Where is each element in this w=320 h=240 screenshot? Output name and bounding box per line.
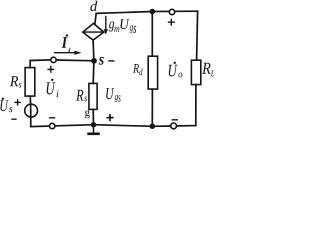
- arrow: gm*Ugs current direction downward: [104, 17, 108, 35]
- wire: middle resistor bottom to node g: [92, 109, 94, 124]
- voltage source Us: circle: [25, 104, 38, 117]
- wire: lead through source circle: [30, 104, 32, 117]
- label: plus at output + terminal: [168, 19, 175, 26]
- label: node s: [99, 57, 104, 65]
- label: current Ii (dotted I with subscript i): [61, 34, 70, 52]
- label: output voltage Uo (dotted U, subscript o): [169, 62, 183, 78]
- node: Rd bottom junction dot: [150, 123, 156, 129]
- resistor Rd: [148, 56, 157, 89]
- node g: junction dot: [91, 122, 96, 127]
- resistor Rs (left series): [25, 68, 35, 97]
- label: plus at input + terminal: [47, 66, 54, 73]
- dependent current source G1: diamond gm*Ugs: [83, 23, 104, 40]
- node s: junction dot: [91, 58, 97, 64]
- label: node d: [90, 1, 97, 11]
- label: input voltage Ui (dotted U, subscript i): [47, 79, 59, 97]
- wire: input terminal left to corner then down to Rs top: [30, 60, 51, 68]
- terminal: input - (open circle): [50, 123, 55, 128]
- wire: right drop from top-right corner down to RL top: [197, 11, 198, 60]
- label: minus at source Us bottom: [11, 118, 16, 120]
- label: minus above input - terminal: [49, 117, 55, 119]
- wire: input run from + terminal to node s: [56, 59, 94, 62]
- label: source voltage Us (dotted U, subscript s): [0, 98, 12, 113]
- resistor Rs (middle, between s and g): [89, 83, 97, 109]
- label: plus of Ugs at node g: [106, 114, 113, 121]
- arrow: Ii direction: [54, 51, 82, 55]
- resistor RL: [191, 60, 200, 84]
- label: Rd: [133, 64, 143, 75]
- terminal: input + (open circle): [51, 57, 56, 62]
- wire: Rd branch vertical from top junction to Rd box: [151, 12, 153, 57]
- wire: bottom-right run from node g through Rd junction to corner: [94, 125, 196, 127]
- label: minus above output - terminal: [172, 119, 178, 121]
- terminal: output + (open circle): [169, 9, 174, 14]
- wire: node s down to middle resistor top: [92, 61, 95, 84]
- label: RL: [202, 63, 214, 76]
- label: minus of Ugs at node s: [108, 60, 114, 62]
- ground symbol at node g: [89, 125, 99, 134]
- label: Rs (middle resistor): [76, 90, 87, 101]
- wire: node d stub from top rail to diamond top: [95, 13, 96, 23]
- label: Ugs across middle resistor: [106, 88, 120, 102]
- terminal: output - (open circle): [171, 123, 177, 129]
- wire: source bottom corner and bottom-left run to node g: [31, 117, 94, 127]
- label: Rs (left series resistor): [10, 76, 21, 87]
- wire: Rd box bottom to bottom junction: [151, 89, 153, 126]
- node: top rail junction dot at Rd branch: [150, 9, 156, 15]
- wire: Rs bottom to source Us top: [29, 96, 31, 105]
- label: gm Ugs controlled source value: [109, 19, 136, 33]
- wire: top rail from node d corner to top-right corner: [96, 11, 197, 13]
- label: node g: [85, 110, 90, 118]
- wire: diamond bottom to node s: [92, 40, 95, 60]
- label: plus at source Us top: [14, 99, 20, 105]
- wire: bottom-right corner up to RL bottom: [195, 85, 197, 126]
